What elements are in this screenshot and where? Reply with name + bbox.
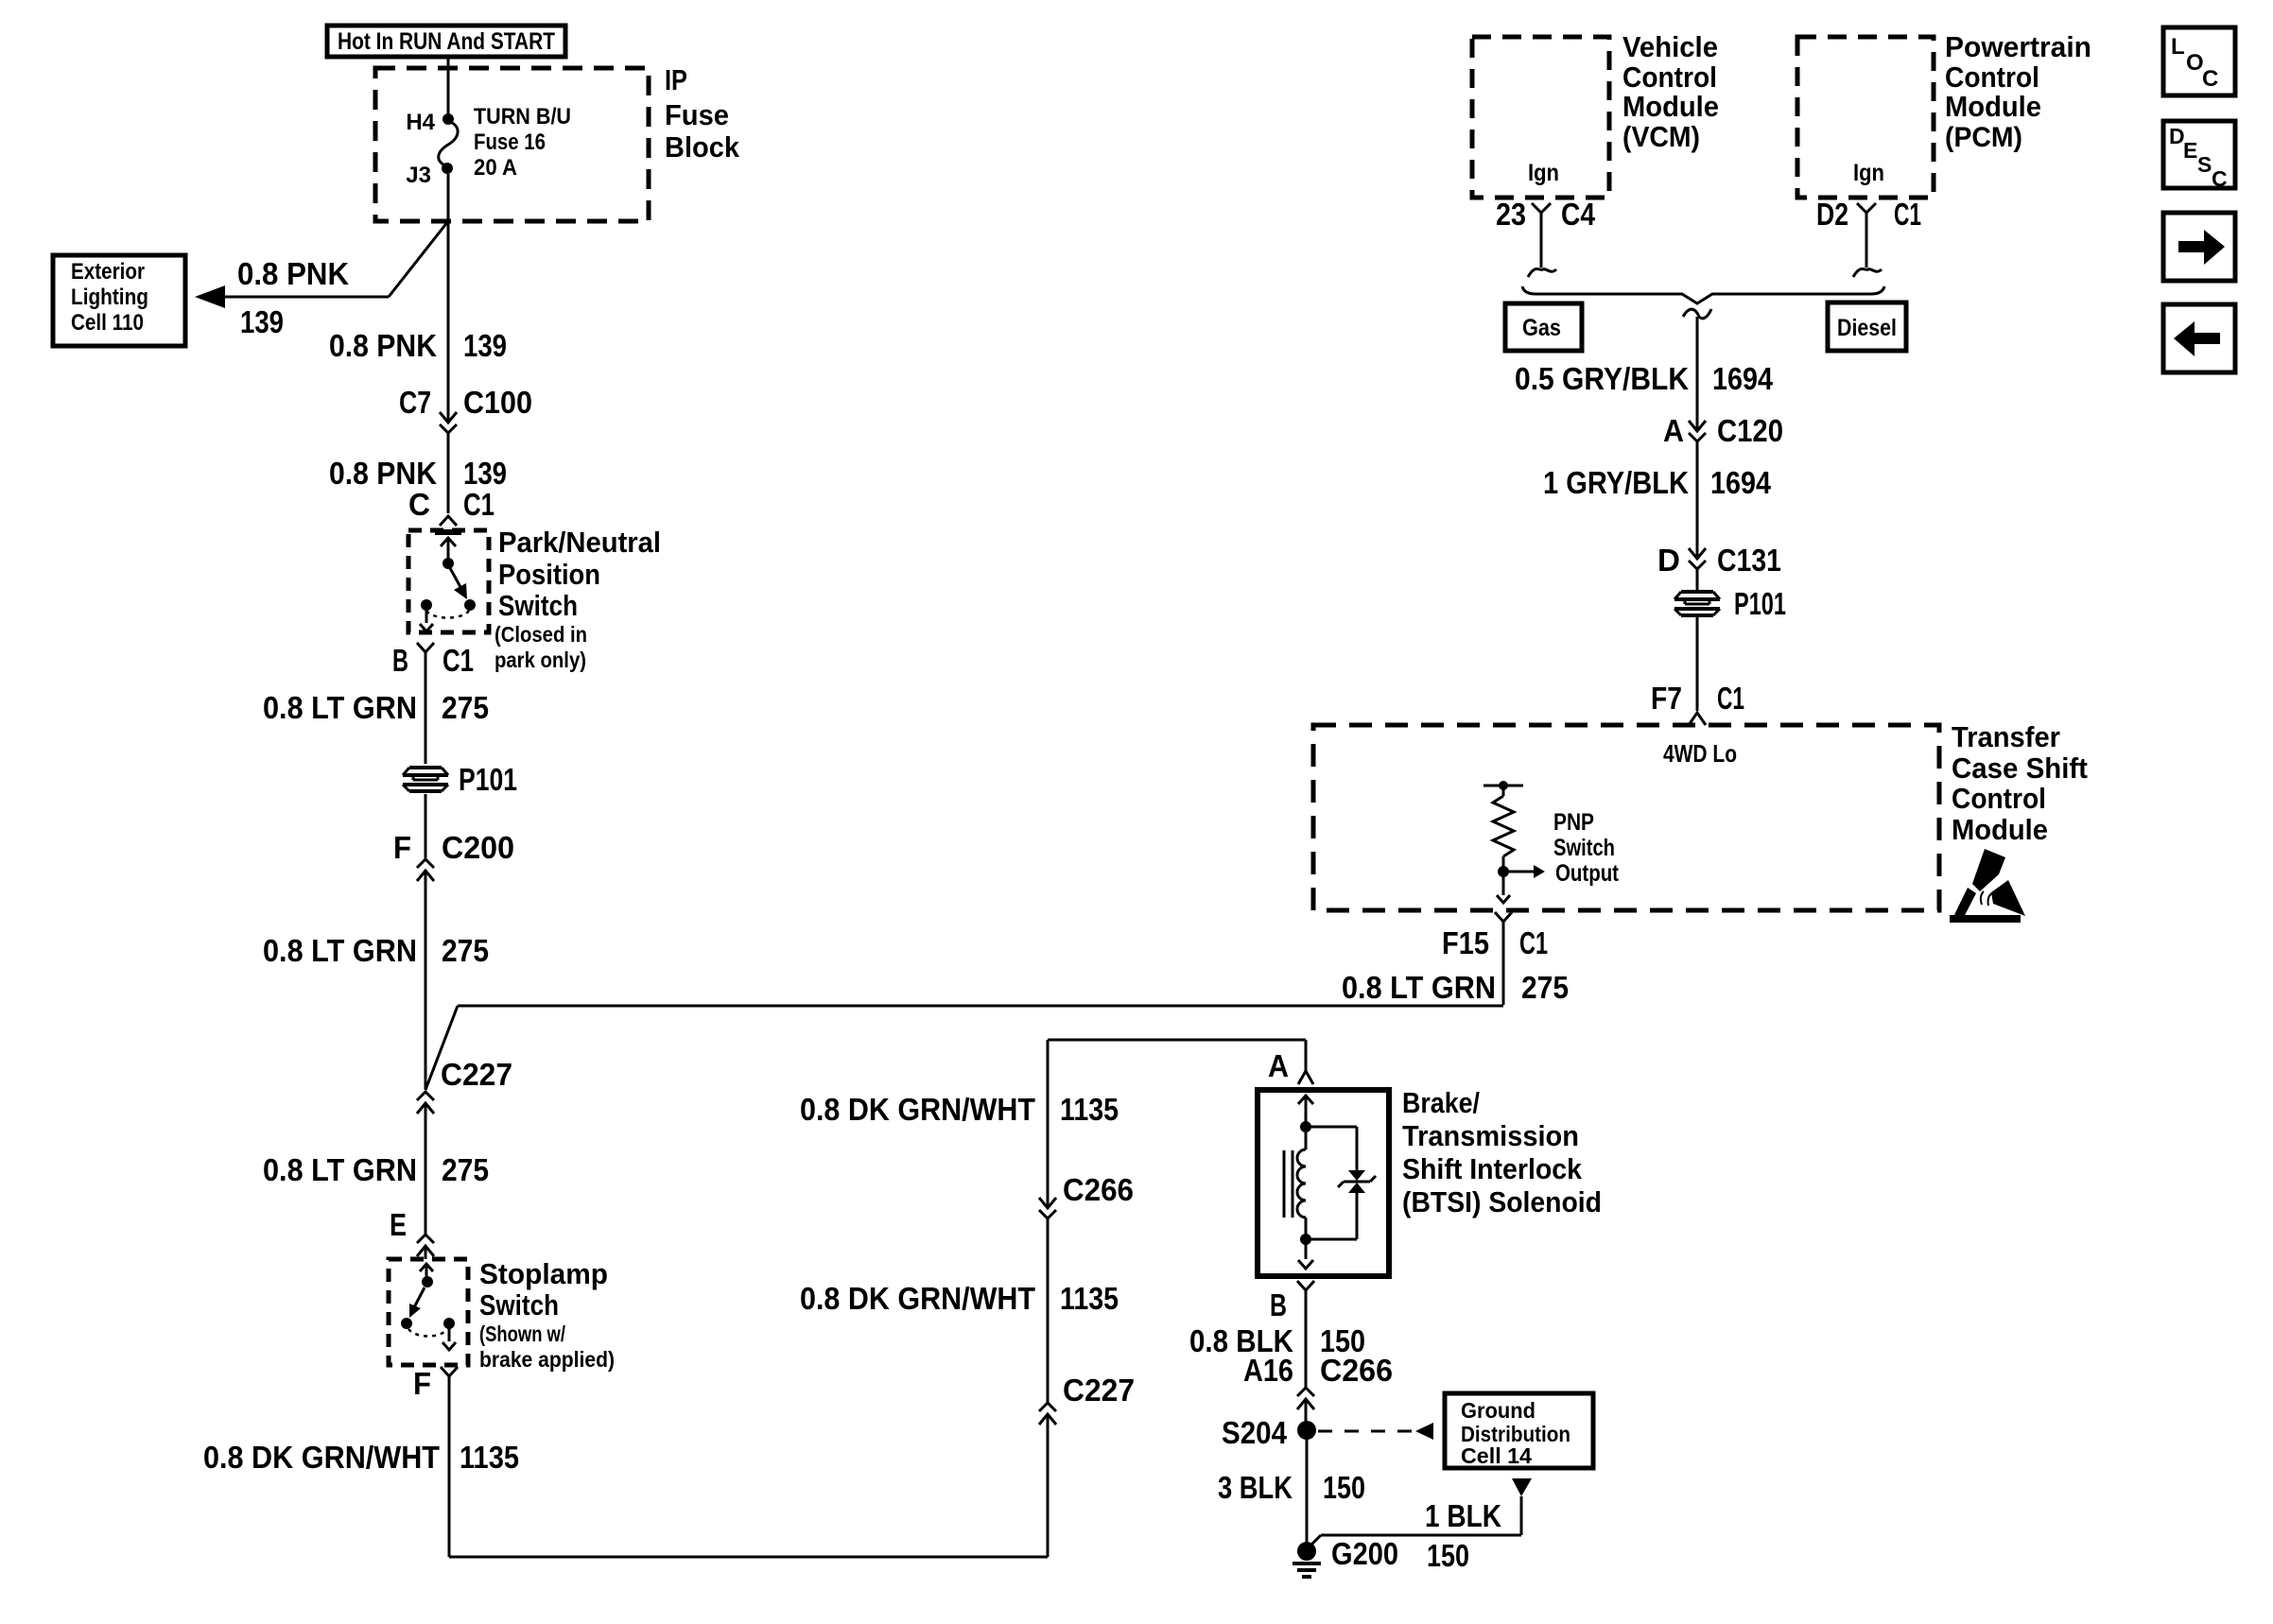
svg-text:0.8 LT GRN: 0.8 LT GRN [263,690,417,725]
svg-text:(VCM): (VCM) [1622,120,1700,153]
svg-text:Control: Control [1945,60,2039,94]
svg-text:Output: Output [1555,860,1620,887]
svg-text:C1: C1 [463,487,495,522]
svg-text:Cell 110: Cell 110 [71,310,144,336]
svg-text:Control: Control [1622,60,1717,94]
svg-text:C1: C1 [1894,197,1921,232]
svg-text:(Shown w/: (Shown w/ [479,1322,565,1346]
svg-text:C227: C227 [441,1057,512,1092]
svg-text:F: F [393,830,411,865]
svg-text:C266: C266 [1320,1353,1393,1388]
svg-text:A: A [1268,1048,1289,1083]
svg-text:Stoplamp: Stoplamp [479,1257,608,1290]
svg-text:C1: C1 [1519,925,1548,960]
svg-text:23: 23 [1496,197,1526,232]
svg-text:C120: C120 [1717,413,1783,448]
svg-text:C100: C100 [463,385,532,420]
svg-text:Switch: Switch [498,589,578,622]
svg-text:1135: 1135 [460,1440,519,1475]
svg-text:0.8 PNK: 0.8 PNK [329,328,437,363]
svg-text:1694: 1694 [1710,465,1772,500]
svg-text:IP: IP [665,63,687,96]
svg-text:Shift Interlock: Shift Interlock [1402,1152,1583,1185]
svg-text:PNP: PNP [1553,809,1594,836]
svg-text:Exterior: Exterior [71,259,145,285]
svg-text:0.8 PNK: 0.8 PNK [237,256,349,291]
svg-text:E: E [390,1207,407,1242]
svg-text:(Closed in: (Closed in [495,622,587,647]
svg-text:Case Shift: Case Shift [1952,752,2088,785]
svg-text:D: D [1657,543,1680,578]
svg-text:0.8 LT GRN: 0.8 LT GRN [263,1152,417,1187]
svg-text:275: 275 [442,933,489,968]
svg-text:0.8 DK GRN/WHT: 0.8 DK GRN/WHT [800,1281,1035,1316]
svg-text:E: E [2183,138,2197,163]
svg-text:1 BLK: 1 BLK [1425,1498,1501,1533]
svg-text:139: 139 [463,456,507,491]
svg-text:Lighting: Lighting [71,285,148,310]
svg-text:0.8 LT GRN: 0.8 LT GRN [1342,970,1496,1005]
svg-text:C: C [2202,66,2218,92]
svg-text:G200: G200 [1331,1536,1398,1571]
svg-text:brake applied): brake applied) [479,1347,615,1372]
svg-text:4WD Lo: 4WD Lo [1663,739,1737,768]
svg-text:Module: Module [1952,813,2048,846]
svg-text:Diesel: Diesel [1837,315,1897,341]
svg-text:Cell 14: Cell 14 [1461,1443,1532,1468]
svg-text:S: S [2197,152,2212,177]
svg-text:0.8 DK GRN/WHT: 0.8 DK GRN/WHT [203,1440,440,1475]
svg-text:(BTSI) Solenoid: (BTSI) Solenoid [1402,1185,1602,1218]
svg-text:Block: Block [665,130,740,164]
svg-text:C: C [408,487,430,522]
svg-text:0.8 DK GRN/WHT: 0.8 DK GRN/WHT [800,1092,1035,1127]
svg-text:Park/Neutral: Park/Neutral [498,526,661,559]
svg-text:B: B [392,643,408,678]
svg-text:275: 275 [442,1152,489,1187]
svg-text:1694: 1694 [1712,361,1774,396]
svg-text:Powertrain: Powertrain [1945,30,2091,63]
svg-text:Gas: Gas [1522,315,1561,341]
svg-text:F15: F15 [1442,925,1489,960]
svg-text:D2: D2 [1816,197,1848,232]
svg-text:0.8 LT GRN: 0.8 LT GRN [263,933,417,968]
svg-text:1135: 1135 [1060,1092,1119,1127]
svg-text:Switch: Switch [1553,835,1615,861]
svg-text:Vehicle: Vehicle [1622,30,1718,63]
svg-text:C200: C200 [442,830,514,865]
svg-text:C4: C4 [1561,197,1596,232]
svg-text:20 A: 20 A [474,155,517,181]
svg-text:150: 150 [1323,1470,1365,1505]
svg-text:C266: C266 [1063,1172,1134,1207]
svg-text:Switch: Switch [479,1288,559,1322]
svg-text:150: 150 [1427,1538,1469,1573]
svg-text:TURN B/U: TURN B/U [474,104,571,130]
svg-text:A16: A16 [1243,1353,1293,1388]
svg-text:B: B [1270,1287,1287,1322]
svg-text:1135: 1135 [1060,1281,1119,1316]
svg-text:H4: H4 [406,110,435,135]
svg-text:Position: Position [498,558,600,591]
svg-text:0.5 GRY/BLK: 0.5 GRY/BLK [1515,361,1689,396]
svg-text:Fuse: Fuse [665,98,729,131]
svg-text:S204: S204 [1222,1415,1288,1450]
svg-text:F7: F7 [1651,681,1682,716]
svg-text:C: C [2212,166,2228,191]
svg-text:P101: P101 [459,762,517,797]
svg-text:C227: C227 [1063,1373,1135,1408]
svg-text:Brake/: Brake/ [1402,1086,1480,1119]
svg-text:139: 139 [240,304,284,339]
svg-text:A: A [1663,413,1684,448]
svg-text:C7: C7 [399,385,431,420]
svg-text:Module: Module [1945,90,2041,123]
svg-text:Hot In RUN And START: Hot In RUN And START [338,28,555,55]
svg-text:C131: C131 [1717,543,1781,578]
svg-text:(PCM): (PCM) [1945,122,2022,153]
svg-text:Ground: Ground [1461,1398,1536,1423]
svg-text:Module: Module [1622,90,1719,123]
svg-text:P101: P101 [1734,586,1786,621]
svg-text:L: L [2171,34,2185,60]
svg-text:Ign: Ign [1528,160,1559,186]
svg-text:0.8 PNK: 0.8 PNK [329,456,437,491]
svg-text:C1: C1 [442,643,474,678]
svg-text:Ign: Ign [1853,160,1884,186]
svg-text:1 GRY/BLK: 1 GRY/BLK [1543,465,1689,500]
svg-text:C1: C1 [1717,681,1744,716]
svg-text:3 BLK: 3 BLK [1218,1470,1293,1505]
svg-text:F: F [413,1366,431,1401]
svg-text:park only): park only) [495,648,586,672]
svg-text:139: 139 [463,328,507,363]
svg-text:Fuse 16: Fuse 16 [474,130,546,155]
svg-text:Transmission: Transmission [1402,1119,1579,1152]
svg-text:O: O [2186,50,2204,76]
svg-text:Control: Control [1952,782,2046,815]
svg-text:Transfer: Transfer [1952,720,2060,753]
svg-text:275: 275 [442,690,489,725]
svg-text:J3: J3 [406,163,431,188]
svg-text:275: 275 [1521,970,1569,1005]
